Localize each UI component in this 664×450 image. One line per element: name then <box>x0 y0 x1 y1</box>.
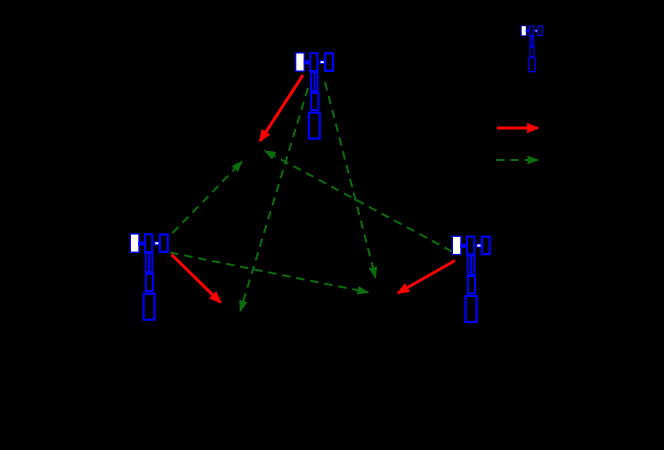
legend: red arrow = desired signal <box>497 127 538 130</box>
svg-text:Interfering signal: Interfering signal <box>552 153 641 167</box>
green dashed arrow: BS2(left) to UE1 (interfering link) <box>173 162 243 234</box>
legend: green dashed arrow = interfering signal <box>496 159 538 161</box>
svg-text:Base station: Base station <box>552 41 618 55</box>
green dashed arrow: BS1(top) to UE3 (interfering link) <box>325 82 376 278</box>
green dashed arrow: BS2(left) to UE3 (interfering link) <box>170 253 368 293</box>
red arrow: BS3(right) to UE3 (desired signal) <box>398 261 455 294</box>
svg-text:Desired signal: Desired signal <box>552 121 628 135</box>
legend: base station icon <box>521 26 542 72</box>
green dashed arrow: BS1(top) to UE2 (interfering link) <box>240 88 308 311</box>
red arrow: BS1(top) to UE1 (desired signal) <box>260 75 303 141</box>
red arrow: BS2(left) to UE2 (desired signal) <box>172 255 221 303</box>
base station BS2 (left) <box>130 234 167 320</box>
base station BS3 (right) <box>452 236 489 322</box>
green dashed arrow: BS3(right) to UE1 (interfering link) <box>265 151 452 252</box>
base station BS1 (top center) <box>296 53 333 139</box>
